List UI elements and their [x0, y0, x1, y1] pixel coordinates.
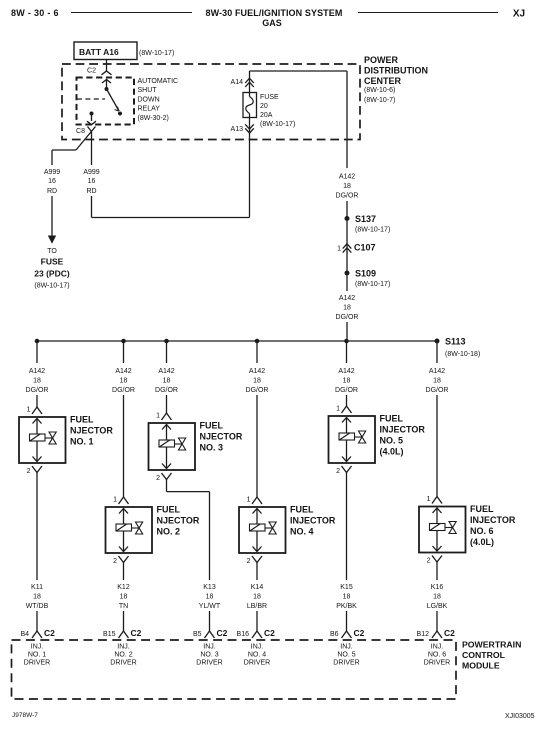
svg-text:A142: A142 — [249, 368, 265, 375]
node column 1 on bus — [35, 339, 40, 344]
svg-text:C2: C2 — [87, 68, 96, 75]
svg-text:C107: C107 — [354, 243, 376, 253]
svg-text:B6: B6 — [330, 631, 339, 638]
svg-text:MODULE: MODULE — [462, 661, 500, 671]
wire A142 18 DG/OR column 3 — [166, 341, 168, 363]
svg-text:(8W-30-2): (8W-30-2) — [138, 115, 169, 122]
svg-text:B16: B16 — [237, 631, 250, 638]
fuel injector no. 5 box — [329, 416, 376, 463]
connector C2 pin B6 — [342, 631, 352, 638]
svg-text:NO. 6: NO. 6 — [470, 526, 494, 536]
svg-text:18: 18 — [433, 594, 441, 601]
fuel injector no. 1 valve nozzle — [45, 437, 52, 439]
svg-text:S113: S113 — [445, 337, 466, 347]
svg-text:18: 18 — [163, 378, 171, 385]
svg-text:16: 16 — [48, 178, 56, 185]
svg-text:NO. 3: NO. 3 — [200, 443, 224, 453]
fuel injector no. 4 valve nozzle — [265, 527, 272, 529]
wire — [346, 201, 348, 217]
fuel injector no. 6 pin 2 — [433, 546, 442, 551]
fuel injector no. 1 pin 2 — [33, 457, 42, 462]
relay output contact to C8 — [90, 112, 94, 116]
power distribution center dashed box — [62, 64, 360, 140]
svg-text:8W - 30 - 6: 8W - 30 - 6 — [11, 8, 59, 18]
relay internal dashed lead — [77, 98, 105, 100]
svg-text:16: 16 — [88, 178, 96, 185]
svg-text:FUEL: FUEL — [290, 505, 314, 515]
svg-text:1: 1 — [427, 496, 431, 503]
svg-text:DRIVER: DRIVER — [196, 660, 222, 667]
svg-text:CONTROL: CONTROL — [462, 650, 506, 660]
wire K11 18 WT/DB — [36, 473, 38, 581]
node column 5 on bus — [344, 339, 349, 344]
connector C2 pin B5 — [205, 631, 215, 638]
svg-text:RD: RD — [47, 188, 57, 195]
svg-text:(8W-10-7): (8W-10-7) — [364, 97, 395, 104]
wire K15 18 PK/BK — [346, 473, 348, 581]
wire fuse A14 up and over to A142 — [249, 71, 251, 93]
svg-text:B12: B12 — [417, 631, 430, 638]
svg-text:NJECTOR: NJECTOR — [70, 426, 113, 436]
svg-text:INJECTOR: INJECTOR — [290, 516, 336, 526]
svg-text:8W-30 FUEL/IGNITION SYSTEM: 8W-30 FUEL/IGNITION SYSTEM — [206, 8, 343, 18]
fuel injector no. 2 valve nozzle — [132, 527, 139, 529]
svg-text:DG/OR: DG/OR — [155, 387, 178, 394]
svg-text:18: 18 — [343, 378, 351, 385]
svg-text:RD: RD — [86, 188, 96, 195]
svg-text:18: 18 — [120, 594, 128, 601]
fuel injector no. 3 pin 2 — [162, 464, 171, 469]
svg-text:XJ: XJ — [513, 9, 525, 20]
fuel injector no. 5 coil — [346, 418, 348, 462]
connector C2 pin B15 — [119, 631, 129, 638]
svg-text:20A: 20A — [260, 112, 273, 119]
svg-text:2: 2 — [156, 475, 160, 482]
fuel injector no. 6 valve nozzle — [445, 527, 452, 529]
automatic shut down relay dashed box — [77, 78, 135, 125]
wire A142 18 DG/OR column 2 — [123, 341, 125, 363]
connector C2 (relay) — [102, 71, 112, 75]
svg-text:18: 18 — [33, 594, 41, 601]
svg-text:K12: K12 — [117, 584, 130, 591]
fuel injector no. 3 coil — [166, 425, 168, 469]
wire A142 18 DG/OR column 6 — [436, 341, 438, 363]
svg-text:C2: C2 — [444, 628, 455, 638]
svg-text:S109: S109 — [355, 269, 376, 279]
wire to splice bus — [346, 322, 348, 341]
svg-text:NO. 2: NO. 2 — [114, 652, 132, 659]
svg-text:POWER: POWER — [364, 55, 399, 65]
wire A142 18 DG/OR column 5 — [346, 341, 348, 363]
svg-text:1: 1 — [113, 497, 117, 504]
svg-text:FUSE: FUSE — [260, 94, 279, 101]
svg-text:INJECTOR: INJECTOR — [470, 515, 516, 525]
svg-text:FUEL: FUEL — [200, 421, 224, 431]
svg-text:FUEL: FUEL — [70, 415, 94, 425]
wire A142 18 DG/OR column 4 — [256, 341, 258, 363]
svg-text:A999: A999 — [44, 169, 60, 176]
svg-text:FUEL: FUEL — [157, 505, 181, 515]
node column 3 on bus — [164, 339, 169, 344]
wire to fuse 23 PDC with arrow — [51, 196, 53, 236]
svg-text:DG/OR: DG/OR — [112, 387, 135, 394]
wire A999 16 RD right branch — [91, 132, 93, 166]
splice S113 — [435, 339, 440, 344]
svg-text:K16: K16 — [431, 584, 444, 591]
fuel injector no. 2 box — [106, 507, 153, 553]
svg-text:B5: B5 — [193, 631, 202, 638]
fuel injector no. 5 pin 2 — [342, 457, 351, 462]
svg-text:A13: A13 — [231, 126, 244, 133]
svg-text:YL/WT: YL/WT — [199, 603, 221, 610]
svg-text:K15: K15 — [340, 584, 353, 591]
svg-text:NO. 2: NO. 2 — [157, 527, 181, 537]
svg-text:DG/OR: DG/OR — [335, 387, 358, 394]
svg-text:18: 18 — [120, 378, 128, 385]
splice S137 — [345, 216, 350, 221]
svg-text:DRIVER: DRIVER — [333, 660, 359, 667]
node column 2 on bus — [121, 339, 126, 344]
svg-text:DISTRIBUTION: DISTRIBUTION — [364, 66, 428, 76]
svg-text:DG/OR: DG/OR — [336, 193, 359, 200]
splice S109 — [345, 271, 350, 276]
wire K13 18 YL/WT — [166, 480, 168, 492]
svg-text:2: 2 — [113, 558, 117, 565]
svg-text:A142: A142 — [429, 368, 445, 375]
fuse 20 20A — [243, 93, 257, 118]
svg-text:NO. 1: NO. 1 — [28, 652, 46, 659]
header rule left — [71, 12, 192, 14]
svg-text:C2: C2 — [44, 628, 55, 638]
svg-text:PK/BK: PK/BK — [336, 603, 357, 610]
svg-text:K11: K11 — [31, 584, 43, 591]
svg-text:DRIVER: DRIVER — [424, 660, 450, 667]
svg-text:NO. 6: NO. 6 — [428, 652, 446, 659]
fuel injector no. 3 valve nozzle — [175, 443, 182, 445]
svg-text:INJ.: INJ. — [340, 644, 353, 651]
fuel injector no. 4 pin 2 — [253, 547, 262, 552]
svg-text:(8W-10-17): (8W-10-17) — [260, 121, 295, 128]
svg-text:POWERTRAIN: POWERTRAIN — [462, 640, 521, 650]
svg-text:LB/BR: LB/BR — [247, 603, 267, 610]
svg-text:NJECTOR: NJECTOR — [200, 432, 243, 442]
relay stationary contact — [118, 112, 122, 116]
svg-text:20: 20 — [260, 103, 268, 110]
powertrain control module dashed box — [12, 640, 457, 699]
svg-text:18: 18 — [343, 594, 351, 601]
svg-text:C2: C2 — [354, 628, 365, 638]
svg-text:NO. 3: NO. 3 — [200, 652, 218, 659]
svg-text:B4: B4 — [20, 631, 29, 638]
wire — [346, 221, 348, 244]
svg-text:18: 18 — [433, 378, 441, 385]
svg-text:A142: A142 — [115, 368, 131, 375]
svg-text:DG/OR: DG/OR — [26, 387, 49, 394]
wire label A142 18 DG/OR (below S109) — [346, 276, 348, 292]
svg-text:DG/OR: DG/OR — [336, 314, 359, 321]
relay switch blade — [107, 89, 120, 111]
svg-text:DRIVER: DRIVER — [110, 660, 136, 667]
svg-text:S137: S137 — [355, 214, 376, 224]
svg-text:K13: K13 — [203, 584, 216, 591]
svg-text:NO. 5: NO. 5 — [380, 436, 404, 446]
svg-text:(4.0L): (4.0L) — [470, 537, 494, 547]
svg-text:LG/BK: LG/BK — [427, 603, 448, 610]
svg-text:NO. 5: NO. 5 — [337, 652, 355, 659]
svg-text:(8W-10-18): (8W-10-18) — [445, 351, 480, 358]
svg-text:TN: TN — [119, 603, 128, 610]
svg-text:INJ.: INJ. — [203, 644, 216, 651]
wire — [346, 252, 348, 271]
svg-text:2: 2 — [427, 558, 431, 565]
svg-text:C2: C2 — [131, 628, 142, 638]
svg-text:1: 1 — [337, 246, 341, 253]
wire K12 18 TN — [123, 563, 125, 581]
svg-text:TO: TO — [47, 248, 57, 255]
svg-text:INJ.: INJ. — [117, 644, 130, 651]
wire K14 18 LB/BR — [256, 563, 258, 581]
svg-text:CENTER: CENTER — [364, 76, 402, 86]
svg-text:A142: A142 — [339, 174, 355, 181]
svg-text:NJECTOR: NJECTOR — [157, 516, 200, 526]
svg-text:DRIVER: DRIVER — [24, 660, 50, 667]
svg-text:INJ.: INJ. — [31, 644, 44, 651]
svg-text:NO. 4: NO. 4 — [290, 527, 314, 537]
svg-text:A142: A142 — [339, 295, 355, 302]
svg-text:RELAY: RELAY — [138, 106, 161, 113]
svg-text:XJI03005: XJI03005 — [505, 713, 535, 720]
svg-text:1: 1 — [156, 413, 160, 420]
svg-text:K14: K14 — [251, 584, 264, 591]
svg-text:GAS: GAS — [262, 18, 282, 28]
svg-text:SHUT: SHUT — [138, 87, 158, 94]
svg-text:18: 18 — [33, 378, 41, 385]
svg-text:A142: A142 — [338, 368, 354, 375]
svg-text:(8W-10-17): (8W-10-17) — [139, 50, 174, 57]
svg-text:(8W-10-6): (8W-10-6) — [364, 87, 395, 94]
node column 4 on bus — [255, 339, 260, 344]
svg-text:18: 18 — [253, 594, 261, 601]
svg-text:1: 1 — [27, 407, 31, 414]
bus wire A142 distribution — [37, 340, 437, 342]
svg-text:DOWN: DOWN — [138, 96, 160, 103]
svg-text:WT/DB: WT/DB — [26, 603, 49, 610]
svg-text:INJ.: INJ. — [431, 644, 444, 651]
svg-text:18: 18 — [206, 594, 214, 601]
connector C2 pin B4 — [32, 631, 42, 638]
svg-text:2: 2 — [27, 468, 31, 475]
svg-text:23 (PDC): 23 (PDC) — [34, 269, 70, 279]
svg-text:A999: A999 — [83, 169, 99, 176]
svg-text:1: 1 — [336, 406, 340, 413]
svg-text:18: 18 — [253, 378, 261, 385]
wire C8 split diagonal branch — [76, 127, 96, 151]
header rule right — [358, 12, 498, 14]
svg-text:NO. 1: NO. 1 — [70, 437, 94, 447]
fuel injector no. 3 box — [149, 423, 196, 470]
svg-text:C2: C2 — [217, 628, 228, 638]
svg-text:FUSE: FUSE — [41, 257, 64, 267]
svg-text:A142: A142 — [29, 368, 45, 375]
fuel injector no. 1 box — [19, 417, 66, 463]
svg-text:B15: B15 — [103, 631, 116, 638]
svg-text:AUTOMATIC: AUTOMATIC — [138, 78, 179, 85]
svg-text:DRIVER: DRIVER — [244, 660, 270, 667]
svg-text:A142: A142 — [158, 368, 174, 375]
wire A142 18 DG/OR column 1 — [36, 341, 38, 363]
fuel injector no. 2 pin 2 — [119, 547, 128, 552]
svg-text:(4.0L): (4.0L) — [380, 447, 404, 457]
svg-text:J978W-7: J978W-7 — [12, 712, 38, 719]
svg-text:BATT A16: BATT A16 — [79, 47, 119, 57]
wire BATT A16 to relay — [106, 60, 108, 72]
svg-text:DG/OR: DG/OR — [426, 387, 449, 394]
connector C2 pin B12 — [432, 631, 442, 638]
fuel injector no. 2 coil — [123, 509, 125, 552]
svg-text:FUEL: FUEL — [470, 504, 494, 514]
svg-text:DG/OR: DG/OR — [246, 387, 269, 394]
fuel injector no. 1 coil — [36, 419, 38, 462]
connector C2 pin B16 — [252, 631, 262, 638]
fuel injector no. 6 box — [419, 507, 466, 553]
svg-text:FUEL: FUEL — [380, 414, 404, 424]
svg-text:C8: C8 — [76, 128, 85, 135]
wire A999 16 RD left branch — [52, 149, 76, 151]
svg-text:C2: C2 — [264, 628, 275, 638]
wire K16 18 LG/BK — [436, 562, 438, 580]
svg-text:18: 18 — [343, 305, 351, 312]
svg-text:NO. 4: NO. 4 — [248, 652, 266, 659]
svg-text:INJECTOR: INJECTOR — [380, 425, 426, 435]
svg-text:INJ.: INJ. — [251, 644, 264, 651]
battery feed BATT A16 box — [74, 42, 137, 60]
svg-text:18: 18 — [343, 183, 351, 190]
relay pivot contact — [105, 87, 109, 91]
fuel injector no. 4 coil — [256, 509, 258, 552]
svg-text:A14: A14 — [231, 79, 244, 86]
svg-text:(8W-10-17): (8W-10-17) — [355, 281, 390, 288]
svg-text:2: 2 — [247, 558, 251, 565]
svg-text:1: 1 — [247, 497, 251, 504]
svg-text:2: 2 — [336, 468, 340, 475]
wire segment to fuse — [91, 196, 93, 218]
fuel injector no. 5 valve nozzle — [355, 436, 362, 438]
fuel injector no. 6 coil — [436, 508, 438, 551]
svg-text:(8W-10-17): (8W-10-17) — [34, 283, 69, 290]
svg-text:(8W-10-17): (8W-10-17) — [355, 227, 390, 234]
fuel injector no. 4 box — [239, 507, 286, 553]
